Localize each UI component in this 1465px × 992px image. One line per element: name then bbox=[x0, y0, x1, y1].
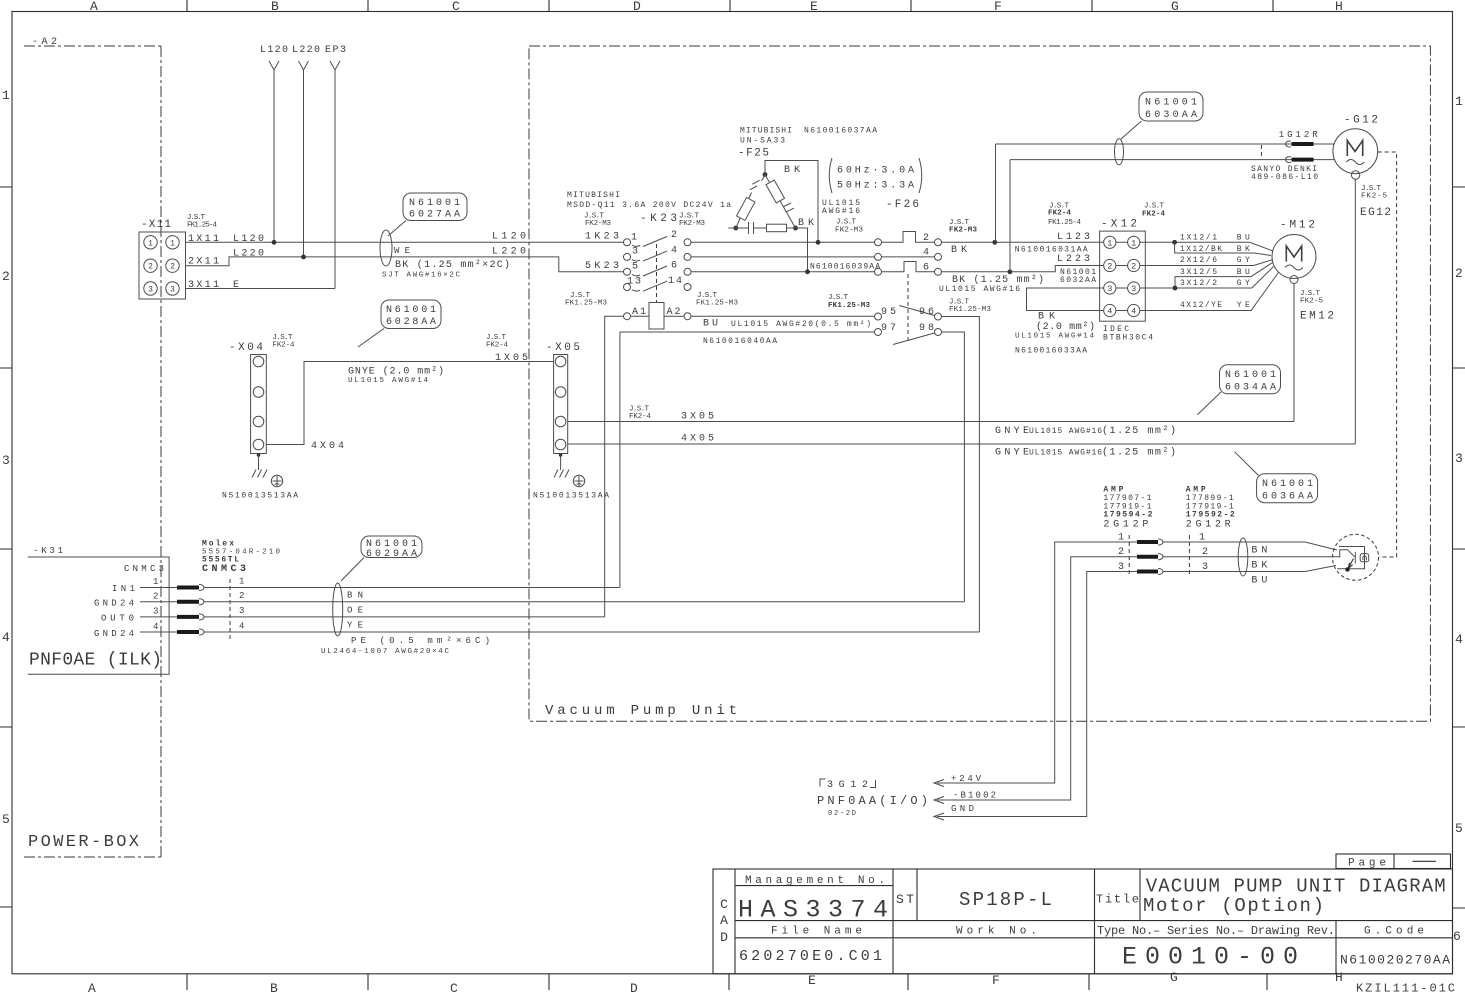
balloon N61001 6036AA bbox=[1235, 452, 1318, 503]
cable label BK (2.0 mm2) bbox=[1015, 312, 1095, 356]
wire label BN bbox=[347, 591, 363, 601]
svg-text:BK (1.25 mm²×2C): BK (1.25 mm²×2C) bbox=[395, 259, 510, 271]
svg-text:UL1015 AWG#14: UL1015 AWG#14 bbox=[1015, 333, 1094, 341]
svg-text:GNYE (2.0 mm²): GNYE (2.0 mm²) bbox=[348, 366, 444, 378]
svg-text:FK2-4: FK2-4 bbox=[273, 342, 295, 350]
svg-text:(1.25 mm²): (1.25 mm²) bbox=[1102, 447, 1176, 459]
cable marker sleeve on G12 leads bbox=[1115, 139, 1124, 165]
svg-text:FK2-4: FK2-4 bbox=[1048, 210, 1071, 218]
svg-text:2: 2 bbox=[1455, 266, 1463, 281]
cable label PE (0.5mm2 x6C) bbox=[321, 636, 490, 656]
wire OE net (CNMC3-2 to contact 98) bbox=[204, 601, 964, 603]
connector note J.S.T FK1.25-M3 (left of 95) bbox=[828, 294, 870, 310]
border column letters bottom bbox=[88, 970, 1343, 992]
title block management no bbox=[738, 875, 888, 925]
svg-text:1: 1 bbox=[1107, 238, 1112, 248]
wire F25 bottom tap to L2 bbox=[796, 228, 808, 272]
wire K23-2 to F26 (L1) bbox=[691, 241, 875, 243]
title block CAD letters bbox=[720, 897, 728, 945]
connector note J.S.T FK2-4 at X05 pin3 bbox=[629, 406, 651, 422]
svg-text:1: 1 bbox=[1131, 238, 1136, 248]
M12 lead 3X12/5 BU bbox=[1175, 263, 1273, 289]
svg-text:D: D bbox=[630, 981, 638, 992]
enclosure Vacuum Pump Unit (dash-dot boundary) bbox=[529, 46, 1430, 721]
border row numbers right bbox=[1453, 94, 1463, 944]
svg-text:2: 2 bbox=[170, 263, 175, 272]
svg-text:2: 2 bbox=[1107, 262, 1112, 272]
svg-text:PNF0AE (ILK): PNF0AE (ILK) bbox=[29, 651, 162, 671]
contactor K23 contact 3-4 bbox=[624, 246, 692, 262]
svg-text:2X12/6: 2X12/6 bbox=[1180, 256, 1217, 265]
wire F26-6 to X12 pin2 (L223) bbox=[942, 266, 1104, 272]
svg-text:UL1015 AWG#16: UL1015 AWG#16 bbox=[939, 285, 1020, 294]
svg-text:179594-2: 179594-2 bbox=[1103, 511, 1152, 520]
svg-text:(1.25 mm²): (1.25 mm²) bbox=[1102, 425, 1176, 437]
svg-text:A: A bbox=[720, 913, 728, 928]
wire EM12 motor frame earth bbox=[1293, 284, 1295, 422]
svg-text:UL1015 AWG#16: UL1015 AWG#16 bbox=[1029, 449, 1102, 458]
wire G12 lead 2 bbox=[1010, 159, 1335, 161]
wire F26-2 to X12 pin1 (L123) bbox=[942, 241, 1104, 243]
wire K31 pin4 to crimp bbox=[140, 631, 177, 633]
ground at X04 bbox=[222, 453, 298, 500]
svg-text:UL1015 AWG#16: UL1015 AWG#16 bbox=[1029, 427, 1102, 436]
wire A1 to YE net bbox=[605, 316, 624, 617]
svg-text:1: 1 bbox=[631, 233, 637, 244]
contactor K23 contact 1-2 bbox=[624, 230, 692, 247]
svg-text:SP18P-L: SP18P-L bbox=[959, 889, 1052, 911]
svg-text:File Name: File Name bbox=[771, 926, 862, 938]
wire label YE bbox=[347, 621, 363, 631]
svg-text:2: 2 bbox=[1131, 262, 1136, 272]
svg-text:1: 1 bbox=[153, 577, 158, 587]
title block title bbox=[1096, 876, 1446, 918]
M12 lead 3X12/2 GY bbox=[1140, 267, 1274, 291]
balloon N61001 6028AA bbox=[358, 300, 441, 347]
wire 4X04 to 1X05 (GNYE 2.0mm2) bbox=[266, 362, 553, 445]
wire 3X05 / GNYE to EM12 bbox=[568, 421, 1294, 423]
svg-text:2: 2 bbox=[2, 269, 10, 284]
part no N61001 6032AA bbox=[1060, 268, 1096, 285]
svg-text:Title: Title bbox=[1096, 893, 1139, 907]
svg-text:-F25: -F25 bbox=[738, 148, 769, 160]
svg-text:3: 3 bbox=[153, 607, 158, 617]
svg-text:L120: L120 bbox=[260, 45, 288, 56]
cable marker sleeve on CNMC3 harness bbox=[333, 583, 343, 636]
svg-text:4: 4 bbox=[1107, 307, 1112, 317]
svg-text:J.S.T: J.S.T bbox=[836, 219, 856, 227]
svg-text:5: 5 bbox=[2, 812, 10, 827]
svg-text:3: 3 bbox=[239, 606, 244, 616]
wire 2G12R-1 to thermal plug bbox=[1163, 542, 1337, 550]
wire 2G12R-2 to thermal plug bbox=[1163, 556, 1340, 558]
svg-text:FK2-4: FK2-4 bbox=[486, 342, 508, 350]
M12 lead 1X12/1 BU bbox=[1140, 234, 1273, 252]
junction G12 tap on L123 bbox=[992, 240, 997, 245]
svg-text:4: 4 bbox=[671, 246, 677, 257]
dashed earth link G12 to plug bbox=[1378, 152, 1397, 557]
svg-text:2: 2 bbox=[923, 233, 929, 244]
svg-text:3: 3 bbox=[1107, 284, 1112, 294]
crimp terminal on G12 lead2 bbox=[1286, 157, 1314, 163]
connector note J.S.T FK1.25-M3 (right of 96) bbox=[949, 299, 991, 315]
svg-text:HAS3374: HAS3374 bbox=[738, 896, 888, 925]
svg-text:J.S.T: J.S.T bbox=[828, 294, 848, 302]
svg-text:6032AA: 6032AA bbox=[1060, 276, 1096, 285]
svg-text:L220: L220 bbox=[292, 45, 320, 56]
cable label GNYE UL1015 AWG#16 (1.25mm2) row2 bbox=[995, 447, 1176, 459]
balloon N61001 6030AA bbox=[1121, 92, 1203, 139]
wire BU net to contact 97 bbox=[620, 332, 875, 588]
svg-text:FK2-4: FK2-4 bbox=[1142, 211, 1165, 219]
wire 96 to PE net bbox=[942, 317, 980, 633]
M12 lead 2X12/6 GY bbox=[1140, 256, 1272, 265]
connector X11 bbox=[139, 214, 217, 299]
off-page arrow B1002 bbox=[934, 791, 996, 804]
svg-text:FK1.25-M3: FK1.25-M3 bbox=[696, 300, 738, 308]
cable label GNYE UL1015 AWG#16 (1.25mm2) row1 bbox=[995, 425, 1176, 437]
cable note UL1015 AWG#16 bbox=[822, 199, 860, 216]
M12 lead 4X12/YE YE bbox=[1140, 273, 1279, 311]
connector 2G12P labels bbox=[1103, 486, 1152, 531]
connector note J.S.T FK2-M3 (left of F26) bbox=[835, 219, 863, 235]
circuit protector F26 bbox=[886, 199, 977, 235]
svg-text:-A2: -A2 bbox=[32, 37, 57, 48]
connector 2G12R labels bbox=[1186, 486, 1235, 531]
svg-text:MITUBISHI: MITUBISHI bbox=[567, 191, 620, 200]
svg-text:4: 4 bbox=[153, 622, 158, 632]
svg-text:F: F bbox=[992, 973, 1000, 988]
CNMC3 pin3 crimp terminal bbox=[177, 614, 204, 620]
svg-text:E: E bbox=[233, 280, 239, 291]
F26 pole 2 (L1) bbox=[875, 232, 942, 246]
wire YE net (CNMC3-3 to coil A1) bbox=[204, 616, 605, 618]
wire +24V to plug pin1 bbox=[937, 542, 1137, 783]
wire G12 lead1 drop to L123 bbox=[995, 144, 997, 242]
junction F25/L1 bbox=[816, 240, 821, 245]
svg-text:C: C bbox=[450, 981, 458, 992]
svg-text:D: D bbox=[633, 0, 641, 14]
svg-text:PNF0AA(I/O): PNF0AA(I/O) bbox=[817, 794, 928, 808]
wire 2G12R-3 to thermal plug bbox=[1163, 566, 1336, 572]
junction L220 bbox=[301, 255, 306, 260]
svg-text:N610016039AA: N610016039AA bbox=[810, 262, 880, 271]
svg-text:489-086-L10: 489-086-L10 bbox=[1251, 173, 1318, 182]
svg-text:2: 2 bbox=[153, 592, 158, 602]
svg-text:BTBH30C4: BTBH30C4 bbox=[1103, 334, 1153, 343]
surge absorber F25 header bbox=[738, 127, 877, 160]
svg-text:SJT AWG#16×2C: SJT AWG#16×2C bbox=[382, 272, 460, 280]
svg-text:1: 1 bbox=[239, 577, 244, 587]
svg-text:4: 4 bbox=[239, 622, 244, 632]
M12 lead 1X12/BK BK bbox=[1175, 242, 1271, 255]
balloon N61001 6029AA bbox=[341, 536, 422, 581]
2G12 pin number labels bbox=[1118, 533, 1208, 574]
svg-text:B: B bbox=[271, 0, 279, 14]
svg-text:5: 5 bbox=[632, 262, 638, 273]
mating line 2G12P dashed bbox=[1128, 535, 1130, 576]
svg-text:2: 2 bbox=[148, 263, 153, 272]
svg-text:FK1.25-M3: FK1.25-M3 bbox=[949, 306, 991, 314]
svg-text:FK2-5: FK2-5 bbox=[1300, 298, 1323, 306]
surge absorber F25 delta network bbox=[728, 172, 798, 234]
wire K23-6 to F26 (L2) bbox=[691, 271, 875, 273]
svg-text:14: 14 bbox=[668, 276, 682, 287]
svg-text:D: D bbox=[720, 930, 728, 945]
svg-text:FK2-5: FK2-5 bbox=[1361, 193, 1387, 201]
connector CNMC3 (Molex) labels bbox=[202, 540, 280, 641]
svg-text:G: G bbox=[1171, 0, 1179, 14]
svg-text:1X12/1: 1X12/1 bbox=[1180, 234, 1217, 243]
wire 3X11 E from EP3 bbox=[186, 288, 336, 290]
junction G12 tap on L223 bbox=[1008, 269, 1013, 274]
svg-text:N610016037AA: N610016037AA bbox=[804, 127, 877, 136]
jumper wire X12 pin3-pin4 (BK 2.0mm2) bbox=[1027, 288, 1104, 311]
wire B1002 to plug pin2 bbox=[937, 557, 1137, 800]
F26 trip linkage dashed bbox=[907, 274, 909, 344]
svg-text:IN1: IN1 bbox=[112, 584, 135, 594]
K23 actuator dashed link bbox=[656, 244, 658, 302]
X12 connector notes left bbox=[1048, 203, 1081, 228]
wire A2 to contact 95 bbox=[691, 315, 875, 317]
border row numbers left bbox=[2, 88, 10, 827]
crimp terminal 2G12 pin2 bbox=[1137, 554, 1163, 560]
off-page arrow GND bbox=[934, 804, 974, 820]
wire GND to plug pin3 bbox=[937, 572, 1137, 817]
motor M12 bbox=[1272, 220, 1334, 323]
wire K31 pin1 to crimp bbox=[140, 587, 177, 589]
CNMC3 pin2 crimp terminal bbox=[177, 599, 204, 605]
F26 pole 6 (L2) bbox=[875, 262, 942, 276]
wire F25 top tap to L1 bbox=[765, 161, 818, 243]
svg-text:5: 5 bbox=[1455, 821, 1463, 836]
svg-text:FK1.25-M3: FK1.25-M3 bbox=[828, 302, 870, 310]
wire K31 pin2 to crimp bbox=[140, 601, 177, 603]
wire K23-4 to F26 bbox=[691, 256, 875, 258]
svg-text:C: C bbox=[720, 897, 728, 912]
CNMC3 pin4 crimp terminal bbox=[177, 629, 204, 635]
crimp terminal 2G12 pin1 bbox=[1137, 539, 1163, 545]
cable marker WE on power cable bbox=[380, 230, 392, 266]
svg-text:2: 2 bbox=[671, 230, 677, 241]
svg-text:A1: A1 bbox=[632, 307, 646, 318]
svg-text:A: A bbox=[88, 981, 96, 992]
contactor K23 contact 5-6 bbox=[624, 261, 692, 277]
rating note (60Hz/50Hz) bbox=[829, 158, 922, 193]
svg-text:50Hz:3.3A: 50Hz:3.3A bbox=[837, 181, 914, 192]
svg-text:2: 2 bbox=[239, 591, 244, 601]
svg-text:6: 6 bbox=[1453, 929, 1461, 944]
ground at X05 bbox=[533, 453, 609, 500]
svg-text:KZIL111-01C: KZIL111-01C bbox=[1356, 982, 1455, 992]
off-page arrow L220 bbox=[292, 45, 320, 257]
svg-text:3: 3 bbox=[632, 247, 638, 258]
svg-text:1: 1 bbox=[1455, 94, 1463, 109]
svg-text:UL2464-1007 AWG#20×4C: UL2464-1007 AWG#20×4C bbox=[321, 648, 449, 656]
svg-text:3: 3 bbox=[1455, 451, 1463, 466]
junction L120 bbox=[272, 240, 277, 245]
wire EG12 fan frame earth bbox=[1354, 179, 1356, 444]
svg-text:FK1.25-4: FK1.25-4 bbox=[1048, 219, 1081, 227]
svg-text:C: C bbox=[452, 0, 460, 14]
wire 4X05 / GNYE to EG12 bbox=[568, 443, 1356, 445]
off-page arrow +24V bbox=[934, 774, 982, 787]
wire PE net (CNMC3-4 to contact 96) bbox=[204, 631, 979, 633]
wire 1X11/L120 bus bbox=[186, 241, 624, 243]
svg-text:4: 4 bbox=[2, 630, 10, 645]
svg-text:MITUBISHI: MITUBISHI bbox=[740, 127, 792, 136]
svg-text:Type No.– Series No.– Drawing: Type No.– Series No.– Drawing Rev. bbox=[1097, 924, 1335, 938]
contactor K23 contact 13-14 bbox=[624, 276, 692, 291]
svg-text:3: 3 bbox=[148, 286, 153, 295]
svg-text:F: F bbox=[994, 0, 1002, 14]
svg-text:FK2-M3: FK2-M3 bbox=[949, 227, 977, 235]
svg-text:E: E bbox=[810, 0, 818, 14]
svg-text:A: A bbox=[90, 0, 98, 14]
svg-text:4: 4 bbox=[1131, 307, 1136, 317]
svg-text:EG12: EG12 bbox=[1360, 207, 1391, 219]
svg-text:AWG#16: AWG#16 bbox=[822, 207, 860, 216]
cable marker sleeve on 2G12R leads bbox=[1238, 538, 1248, 576]
pair link dashed G12 leads bbox=[1260, 145, 1262, 159]
svg-text:N610016033AA: N610016033AA bbox=[1015, 347, 1087, 356]
svg-text:E: E bbox=[808, 973, 816, 988]
svg-text:13: 13 bbox=[627, 277, 641, 288]
connector note J.S.T FK2-5 (EG12) bbox=[1361, 185, 1387, 201]
title block values row bbox=[739, 943, 1450, 972]
svg-text:3: 3 bbox=[170, 286, 175, 295]
svg-text:3: 3 bbox=[2, 453, 10, 468]
earth terminal block X04 bbox=[229, 334, 295, 454]
junction F25/L2 bbox=[805, 269, 810, 274]
border column letters top bbox=[90, 0, 1343, 14]
wire K31 pin3 to crimp bbox=[140, 616, 177, 618]
auxiliary contact 95-96 bbox=[875, 306, 942, 321]
svg-text:GND: GND bbox=[951, 804, 974, 814]
title block file name row bbox=[771, 924, 1424, 938]
svg-text:FK1.25-4: FK1.25-4 bbox=[187, 222, 217, 230]
crimp terminal 2G12 pin3 bbox=[1137, 568, 1163, 574]
svg-text:UL1015 AWG#14: UL1015 AWG#14 bbox=[348, 377, 428, 385]
part note SANYO DENKI 489-086-L10 bbox=[1251, 165, 1318, 182]
contactor K23 header text bbox=[567, 191, 731, 228]
svg-text:(2.0 mm²): (2.0 mm²) bbox=[1036, 321, 1095, 333]
wire 2X11/L220 bus with jogs bbox=[186, 257, 624, 272]
part note IDEC BTBH30C4 bbox=[1103, 325, 1153, 343]
svg-text:POWER-BOX: POWER-BOX bbox=[28, 833, 139, 852]
crimp terminal on G12 lead1 bbox=[1286, 141, 1314, 147]
F26 pole 4 bbox=[875, 248, 942, 261]
CNMC3 pin1 crimp terminal bbox=[177, 584, 204, 590]
connector X12 bbox=[1100, 219, 1146, 322]
destination note 3G12 PNF0AA(I/O) bbox=[817, 779, 928, 818]
relay/interface box K31 PNF0AE(ILK) bbox=[28, 546, 169, 674]
svg-text:FK2-M3: FK2-M3 bbox=[585, 220, 611, 228]
mating line 2G12R dashed bbox=[1188, 535, 1190, 576]
svg-text:PE (0.5 mm²×6C): PE (0.5 mm²×6C) bbox=[351, 636, 490, 646]
svg-text:H: H bbox=[1335, 0, 1343, 14]
svg-text:3X12/2: 3X12/2 bbox=[1180, 279, 1217, 288]
wire BN net (CNMC3-1 to BU riser) bbox=[204, 587, 620, 589]
svg-text:Motor (Option): Motor (Option) bbox=[1143, 895, 1324, 917]
svg-text:G: G bbox=[1170, 970, 1178, 985]
svg-text:N610020270AA: N610020270AA bbox=[1340, 953, 1450, 968]
fan G12 bbox=[1333, 115, 1378, 180]
svg-text:J.S.T: J.S.T bbox=[1144, 203, 1164, 211]
wire G12 lead2 drop to L223 bbox=[1009, 160, 1011, 272]
balloon N61001 6027AA bbox=[388, 193, 467, 236]
wire label OE bbox=[347, 606, 363, 616]
wire 98 to OE net bbox=[942, 332, 965, 602]
svg-text:B: B bbox=[270, 981, 278, 992]
off-page arrow EP3 bbox=[325, 45, 346, 289]
title block page cell bbox=[1336, 854, 1451, 870]
svg-text:60Hz·3.0A: 60Hz·3.0A bbox=[837, 166, 914, 177]
svg-text:-X11: -X11 bbox=[141, 219, 171, 231]
svg-text:1: 1 bbox=[2, 88, 10, 103]
svg-text:FK2-M3: FK2-M3 bbox=[835, 227, 863, 235]
svg-text:UL1015 AWG#20(0.5 mm²): UL1015 AWG#20(0.5 mm²) bbox=[731, 320, 871, 329]
X11 pin labels bbox=[188, 234, 264, 291]
svg-text:1: 1 bbox=[148, 239, 153, 248]
svg-text:FK2-M3: FK2-M3 bbox=[679, 220, 705, 228]
coil K23 A1-A2 bbox=[624, 303, 692, 330]
svg-text:EP3: EP3 bbox=[325, 45, 346, 56]
title block ST / SP18P-L bbox=[896, 889, 1052, 911]
earth terminal block X05 bbox=[486, 334, 580, 454]
svg-text:3X12/5: 3X12/5 bbox=[1180, 268, 1217, 277]
svg-text:A2: A2 bbox=[667, 307, 681, 318]
wire G12 lead 1 bbox=[996, 143, 1335, 145]
svg-text:1: 1 bbox=[170, 239, 175, 248]
K23 bottom connector labels bbox=[565, 292, 738, 308]
off-page arrow L120 bbox=[260, 45, 288, 242]
auxiliary contact 97-98 bbox=[875, 323, 942, 345]
svg-text:4: 4 bbox=[1455, 632, 1463, 647]
X12 connector notes right bbox=[1142, 203, 1165, 219]
title block frame bbox=[713, 869, 1453, 974]
enclosure A2 POWER-BOX (dash-dot boundary) bbox=[24, 37, 161, 857]
svg-text:6: 6 bbox=[671, 261, 677, 272]
balloon N61001 6034AA bbox=[1198, 365, 1281, 415]
svg-text:3: 3 bbox=[1131, 284, 1136, 294]
svg-text:02-2D: 02-2D bbox=[828, 810, 856, 818]
svg-text:FK1.25-M3: FK1.25-M3 bbox=[565, 300, 607, 308]
svg-text:179592-2: 179592-2 bbox=[1186, 511, 1235, 520]
thermal protector plug (dashed circle) bbox=[1333, 534, 1379, 580]
svg-text:6: 6 bbox=[923, 263, 929, 274]
svg-text:4: 4 bbox=[923, 248, 929, 259]
svg-text:FK2-4: FK2-4 bbox=[629, 413, 651, 421]
